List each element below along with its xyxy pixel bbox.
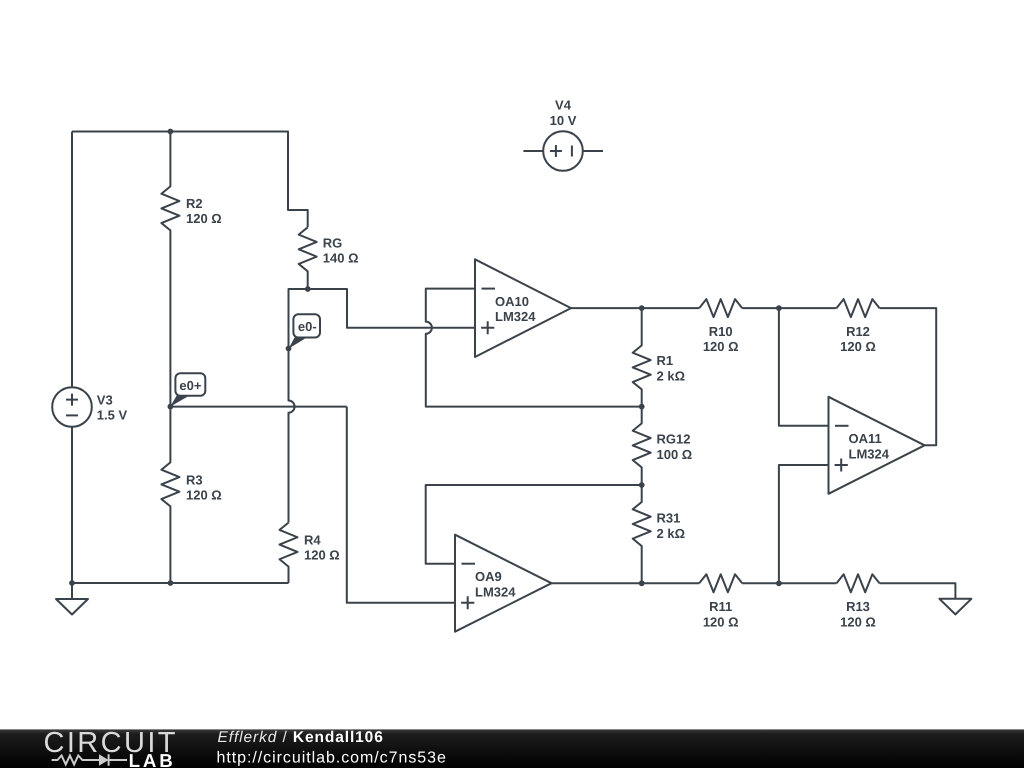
node RG12 R31 junction bbox=[639, 482, 645, 488]
label OA9 bbox=[475, 569, 516, 599]
svg-text:R13: R13 bbox=[846, 599, 870, 614]
resistor R1 bbox=[633, 308, 651, 407]
logo diode triangle bbox=[99, 754, 109, 765]
wire V4 right lead bbox=[583, 150, 603, 152]
wire top rail from V3 top to RG branch bbox=[72, 132, 308, 228]
node R1 RG12 junction bbox=[639, 404, 645, 410]
resistor R10 bbox=[699, 299, 742, 317]
label R12 bbox=[840, 324, 876, 354]
svg-text:Efflerkd / Kendall106: Efflerkd / Kendall106 bbox=[218, 729, 384, 746]
wire OA9 plus input net bbox=[347, 407, 455, 603]
svg-text:RG: RG bbox=[323, 236, 343, 251]
svg-text:10 V: 10 V bbox=[550, 113, 577, 128]
label RG bbox=[323, 236, 359, 266]
wire OA9 minus feedback net bbox=[426, 485, 642, 564]
wire between R10 and R12 bbox=[742, 307, 836, 309]
label R4 bbox=[304, 532, 340, 562]
wire bottom left rail bbox=[72, 583, 289, 599]
op-amp OA11 bbox=[829, 397, 925, 494]
node e0- flag anchor bbox=[286, 346, 292, 352]
resistor RG12 bbox=[633, 407, 651, 485]
node R11 R13 OA11 plus junction bbox=[776, 580, 782, 586]
wire OA11 minus input net bbox=[779, 308, 829, 426]
svg-text:R2: R2 bbox=[186, 196, 203, 211]
wire e0- net left segment bbox=[289, 289, 308, 523]
op-amp OA9 bbox=[455, 535, 552, 632]
node OA10 output junction bbox=[639, 305, 645, 311]
svg-text:LM324: LM324 bbox=[495, 309, 536, 324]
resistor R13 bbox=[837, 574, 880, 592]
svg-text:LM324: LM324 bbox=[849, 446, 890, 461]
wire left column V3 top lead bbox=[71, 132, 73, 388]
wire e0- net to OA10 plus input bbox=[308, 289, 475, 328]
svg-text:R31: R31 bbox=[657, 511, 681, 526]
svg-text:120 Ω: 120 Ω bbox=[304, 548, 340, 563]
voltage source V4 bbox=[543, 131, 583, 171]
node e0+ callout bbox=[170, 373, 205, 406]
ground right bbox=[939, 599, 971, 615]
resistor R4 bbox=[280, 523, 298, 583]
svg-text:120 Ω: 120 Ω bbox=[840, 615, 876, 630]
svg-text:R10: R10 bbox=[709, 324, 733, 339]
svg-text:2 kΩ: 2 kΩ bbox=[657, 526, 686, 541]
resistor R31 bbox=[633, 485, 651, 583]
label R3 bbox=[186, 472, 222, 502]
node top rail R2 junction bbox=[168, 129, 174, 135]
label R2 bbox=[186, 196, 222, 226]
ground left bbox=[56, 599, 88, 615]
svg-text:R11: R11 bbox=[709, 599, 732, 614]
svg-text:R12: R12 bbox=[846, 324, 870, 339]
wire R13 to ground bbox=[880, 583, 956, 599]
svg-text:V3: V3 bbox=[97, 392, 113, 407]
svg-text:100 Ω: 100 Ω bbox=[657, 447, 693, 462]
svg-text:LM324: LM324 bbox=[475, 584, 516, 599]
svg-text:RG12: RG12 bbox=[657, 432, 691, 447]
node e0- callout bbox=[289, 314, 320, 348]
svg-text:http://circuitlab.com/c7ns53e: http://circuitlab.com/c7ns53e bbox=[217, 750, 447, 767]
svg-text:140 Ω: 140 Ω bbox=[323, 251, 359, 266]
svg-text:R1: R1 bbox=[657, 353, 674, 368]
label R1 bbox=[657, 353, 686, 383]
wire R12 to OA11 output bbox=[880, 308, 937, 445]
resistor R12 bbox=[837, 299, 880, 317]
svg-text:120 Ω: 120 Ω bbox=[703, 339, 739, 354]
svg-text:120 Ω: 120 Ω bbox=[186, 488, 222, 503]
node R3 bottom junction bbox=[168, 580, 174, 586]
node R31 OA9 output junction bbox=[639, 580, 645, 586]
wire OA11 plus input net bbox=[779, 465, 829, 583]
wire left column V3 bottom lead bbox=[71, 427, 73, 583]
svg-text:R4: R4 bbox=[304, 532, 321, 547]
svg-text:2 kΩ: 2 kΩ bbox=[657, 369, 686, 384]
svg-text:V4: V4 bbox=[555, 98, 572, 113]
svg-text:120 Ω: 120 Ω bbox=[703, 615, 739, 630]
svg-text:1.5 V: 1.5 V bbox=[97, 408, 128, 423]
label R13 bbox=[840, 599, 876, 629]
node e0+ flag anchor bbox=[168, 404, 174, 410]
svg-text:R3: R3 bbox=[186, 472, 203, 487]
wire V4 left lead bbox=[523, 150, 543, 152]
node e0- RG junction bbox=[305, 286, 311, 292]
svg-text:e0-: e0- bbox=[298, 319, 317, 334]
op-amp OA10 bbox=[475, 259, 571, 357]
svg-text:OA9: OA9 bbox=[475, 569, 502, 584]
label V3 bbox=[97, 392, 128, 422]
label R31 bbox=[657, 511, 686, 542]
logo resistor diode glyph bbox=[52, 754, 127, 765]
svg-text:e0+: e0+ bbox=[179, 378, 201, 393]
resistor RG bbox=[299, 227, 317, 289]
label OA11 bbox=[849, 431, 890, 461]
wire e0+ net horizontal bbox=[170, 406, 346, 408]
svg-text:120 Ω: 120 Ω bbox=[186, 211, 222, 226]
wire OA10 output rail bbox=[571, 307, 699, 309]
wire between R11 and R13 bbox=[742, 582, 836, 584]
resistor R2 bbox=[161, 132, 179, 407]
label V4 bbox=[550, 98, 577, 128]
label RG12 bbox=[657, 432, 693, 463]
label OA10 bbox=[495, 294, 536, 324]
resistor R11 bbox=[699, 574, 742, 592]
voltage source V3 bbox=[52, 387, 92, 427]
node R10 R12 OA11 minus junction bbox=[776, 305, 782, 311]
svg-text:120 Ω: 120 Ω bbox=[840, 339, 876, 354]
svg-text:OA10: OA10 bbox=[495, 294, 529, 309]
svg-text:LAB: LAB bbox=[129, 750, 176, 768]
node ground left junction bbox=[69, 580, 75, 586]
resistor R3 bbox=[161, 407, 179, 583]
label R10 bbox=[703, 324, 739, 354]
label R11 bbox=[703, 599, 739, 629]
wire OA9 output rail bbox=[552, 582, 700, 584]
svg-text:OA11: OA11 bbox=[849, 431, 882, 446]
wire OA10 minus feedback net bbox=[426, 289, 642, 407]
